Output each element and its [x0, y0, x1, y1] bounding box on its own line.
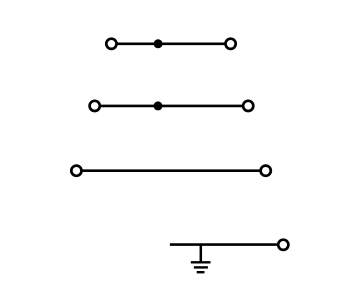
terminal circle level 2 left: [90, 101, 100, 111]
wire level 4 (ground level): [170, 243, 283, 246]
wire level 2: [95, 105, 249, 108]
terminal circle level 2 right: [243, 101, 253, 111]
terminal circle level 1 right: [226, 39, 236, 49]
terminal circle level 1 left: [106, 39, 116, 49]
terminal circle level 3 right: [261, 166, 271, 176]
wire level 3: [76, 169, 265, 172]
ground: [191, 245, 211, 273]
junction dot level 1: [154, 39, 163, 48]
wire level 1: [111, 42, 230, 45]
terminal circle level 4 right: [278, 240, 288, 250]
junction dot level 2: [154, 101, 163, 110]
terminal circle level 3 left: [71, 166, 81, 176]
